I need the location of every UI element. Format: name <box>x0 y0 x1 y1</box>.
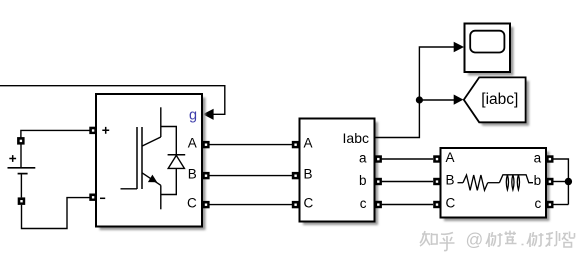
IGBT bottom stub <box>160 185 162 209</box>
inverter port C <box>202 201 209 208</box>
measurement port B <box>292 172 299 179</box>
battery top plate <box>8 167 36 169</box>
IGBT gate bars Q1 <box>137 127 142 189</box>
svg-text:c: c <box>360 196 367 211</box>
scope block shadow <box>468 27 514 76</box>
RLC port C <box>433 201 440 208</box>
inductor L1 coil <box>499 175 533 183</box>
inverter port A <box>202 141 209 148</box>
wire battery lead bottom <box>20 174 22 197</box>
inductor L1 lead <box>488 182 500 184</box>
RLC branch block body <box>441 148 547 218</box>
IGBT emitter angled lead <box>142 173 161 186</box>
resistor R1 zigzag <box>463 175 488 190</box>
IGBT top stub <box>160 107 162 137</box>
measurement block shadow <box>303 122 378 225</box>
RLC block shadow <box>444 152 550 222</box>
wire battery minus to inverter minus <box>22 198 90 229</box>
svg-text:b: b <box>534 173 542 188</box>
wire phase c RLC to bus <box>554 204 569 206</box>
diode branch top tee <box>161 127 177 155</box>
label - inside inverter <box>100 197 105 199</box>
RLC port a <box>546 155 553 162</box>
measurement block body (three-phase V-I measurement) <box>300 119 375 222</box>
measurement port c <box>375 201 382 208</box>
svg-text:B: B <box>188 166 197 181</box>
scope block body <box>465 24 511 73</box>
svg-text:B: B <box>304 166 313 181</box>
wire battery plus to inverter plus <box>21 130 90 137</box>
wire junction to goto tag <box>419 99 454 101</box>
svg-text:A: A <box>446 150 455 165</box>
svg-text:A: A <box>188 135 197 150</box>
watermark zhihu <box>420 230 575 251</box>
wire Iabc to junction and scope <box>375 47 454 138</box>
battery bottom plate <box>18 173 28 175</box>
svg-text:Iabc: Iabc <box>343 130 369 146</box>
inverter port B <box>202 172 209 179</box>
arrowhead into g port <box>203 109 214 120</box>
battery DC source plus sign <box>9 155 16 162</box>
svg-text:C: C <box>187 195 197 210</box>
measurement port A <box>292 141 299 148</box>
svg-text:C: C <box>446 195 456 210</box>
wire trigger line from top-left to g port <box>0 86 225 115</box>
svg-text:C: C <box>304 195 314 210</box>
svg-text:a: a <box>534 150 542 165</box>
battery port square top <box>17 137 25 145</box>
wire phase b RLC to bus <box>554 181 569 183</box>
inverter block body U1 <box>96 94 202 227</box>
svg-text:B: B <box>446 172 455 187</box>
RLC port A <box>433 155 440 162</box>
junction node dot neutral <box>565 178 572 185</box>
wire phase C inverter to measurement <box>210 204 293 206</box>
goto tag [iabc] body <box>464 77 526 122</box>
RLC port b <box>546 178 553 185</box>
IGBT gate lead <box>121 188 138 190</box>
measurement port a <box>375 155 382 162</box>
IGBT emitter arrowhead <box>148 175 157 183</box>
RLC port B <box>433 178 440 185</box>
wire phase A inverter to measurement <box>210 144 293 146</box>
resistor R1 lead <box>458 182 464 184</box>
svg-text:b: b <box>359 173 367 188</box>
junction node dot <box>416 96 423 103</box>
svg-text:[iabc]: [iabc] <box>481 91 518 108</box>
wire phase b measurement to RLC <box>382 181 433 183</box>
wire phase c measurement to RLC <box>382 204 433 206</box>
inverter port + <box>89 127 96 134</box>
measurement port b <box>375 178 382 185</box>
diode cathode bar D1 <box>168 154 186 156</box>
diode branch bottom lead <box>161 168 177 194</box>
wire phase a RLC to bus <box>554 159 569 205</box>
diode triangle D1 <box>168 155 184 168</box>
svg-text:g: g <box>189 107 197 123</box>
scope screen <box>470 31 504 53</box>
svg-text:a: a <box>359 150 367 165</box>
RLC port c <box>546 201 553 208</box>
svg-text:c: c <box>534 196 541 211</box>
wire battery lead top <box>20 144 22 167</box>
goto tag shadow <box>467 81 529 126</box>
measurement port C <box>292 201 299 208</box>
wire phase B inverter to measurement <box>210 175 293 177</box>
wire phase a measurement to RLC <box>382 158 433 160</box>
arrowhead into goto tag <box>454 95 464 105</box>
arrowhead into scope <box>454 42 464 52</box>
battery port square bottom <box>18 197 26 205</box>
inverter block shadow <box>100 98 206 231</box>
inverter port - <box>89 194 96 201</box>
svg-text:@: @ <box>466 230 484 250</box>
label + inside inverter <box>102 127 109 134</box>
svg-text:A: A <box>304 135 313 150</box>
IGBT collector angled lead <box>142 137 161 146</box>
